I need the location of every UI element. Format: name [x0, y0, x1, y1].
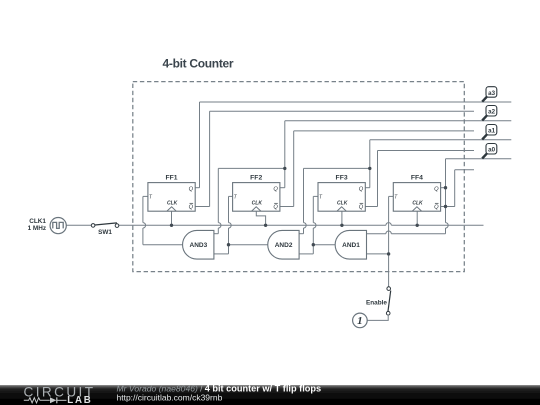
svg-text:FF3: FF3: [336, 175, 348, 182]
svg-text:a1: a1: [488, 128, 495, 135]
svg-text:Q: Q: [434, 187, 439, 193]
svg-text:AND2: AND2: [275, 242, 293, 249]
svg-text:CLK1: CLK1: [29, 218, 46, 225]
svg-text:Q: Q: [434, 205, 439, 211]
svg-text:CLK: CLK: [252, 201, 263, 207]
svg-text:Q: Q: [359, 187, 364, 193]
svg-text:a2: a2: [488, 109, 495, 116]
svg-text:CLK: CLK: [337, 201, 348, 207]
svg-text:FF1: FF1: [165, 175, 177, 182]
svg-text:1 MHz: 1 MHz: [28, 225, 46, 232]
svg-text:FF2: FF2: [250, 175, 262, 182]
svg-text:http://circuitlab.com/ck39rnb: http://circuitlab.com/ck39rnb: [117, 393, 223, 403]
svg-text:1: 1: [357, 315, 363, 327]
svg-text:Q: Q: [189, 205, 194, 211]
svg-text:CLK: CLK: [412, 201, 423, 207]
svg-text:a3: a3: [488, 90, 495, 97]
svg-text:4-bit Counter: 4-bit Counter: [163, 56, 234, 70]
svg-text:CLK: CLK: [167, 201, 178, 207]
svg-text:SW1: SW1: [98, 229, 112, 236]
svg-text:AND1: AND1: [342, 242, 360, 249]
svg-text:Enable: Enable: [366, 299, 387, 306]
svg-text:AND3: AND3: [190, 242, 208, 249]
svg-text:Q: Q: [189, 187, 194, 193]
svg-text:LAB: LAB: [67, 395, 92, 405]
svg-text:Q: Q: [273, 205, 278, 211]
svg-text:Q: Q: [359, 205, 364, 211]
svg-text:a0: a0: [488, 147, 495, 154]
svg-text:Q: Q: [273, 187, 278, 193]
svg-text:FF4: FF4: [411, 175, 423, 182]
